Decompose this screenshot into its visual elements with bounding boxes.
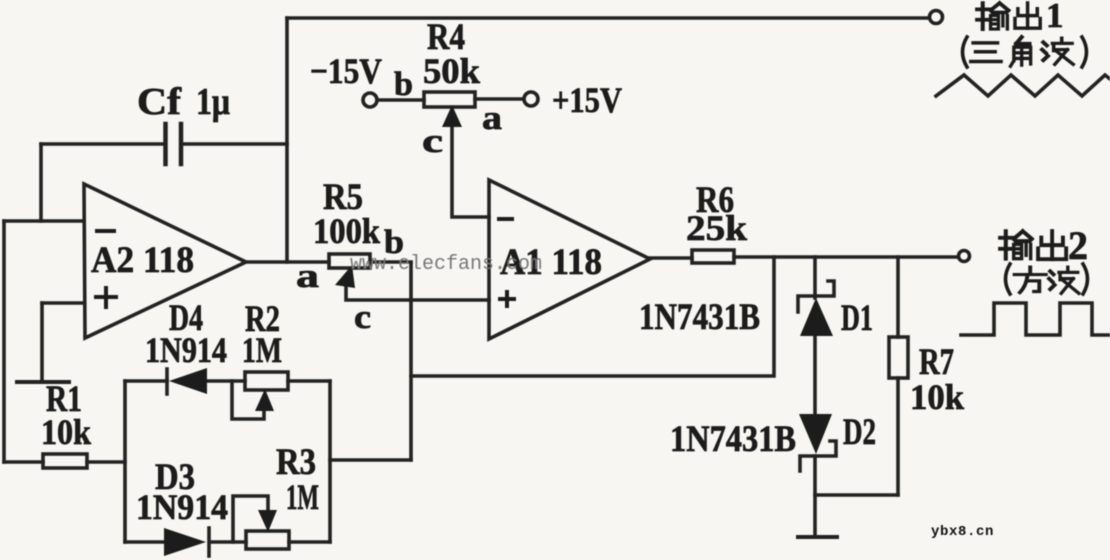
svg-text:D1: D1 xyxy=(841,298,873,339)
svg-text:1M: 1M xyxy=(242,330,282,370)
svg-text:1μ: 1μ xyxy=(196,81,230,123)
svg-text:a: a xyxy=(482,100,502,137)
svg-text:c: c xyxy=(354,299,371,336)
svg-text:1N914: 1N914 xyxy=(136,487,228,527)
svg-text:1M: 1M xyxy=(286,477,319,517)
svg-text:10k: 10k xyxy=(910,377,964,417)
svg-text:1N7431B: 1N7431B xyxy=(670,419,796,460)
svg-text:1N914: 1N914 xyxy=(145,330,227,370)
svg-text:10k: 10k xyxy=(41,412,91,452)
svg-text:a: a xyxy=(296,258,319,295)
svg-text:Cf: Cf xyxy=(137,81,182,123)
svg-text:1N7431B: 1N7431B xyxy=(639,297,760,338)
svg-text:D2: D2 xyxy=(843,412,876,453)
svg-text:25k: 25k xyxy=(686,208,747,248)
svg-text:b: b xyxy=(394,66,413,103)
svg-text:A2 118: A2 118 xyxy=(91,240,194,281)
svg-text:+15V: +15V xyxy=(552,80,622,120)
svg-text:100k: 100k xyxy=(313,211,380,251)
svg-text:2: 2 xyxy=(1068,223,1088,268)
svg-text:www.elecfans.com: www.elecfans.com xyxy=(350,253,542,276)
svg-text:1: 1 xyxy=(1046,0,1064,35)
svg-text:50k: 50k xyxy=(423,51,480,91)
svg-text:−15V: −15V xyxy=(310,51,382,91)
svg-text:c: c xyxy=(422,123,443,160)
svg-text:ybx8.cn: ybx8.cn xyxy=(931,524,994,540)
